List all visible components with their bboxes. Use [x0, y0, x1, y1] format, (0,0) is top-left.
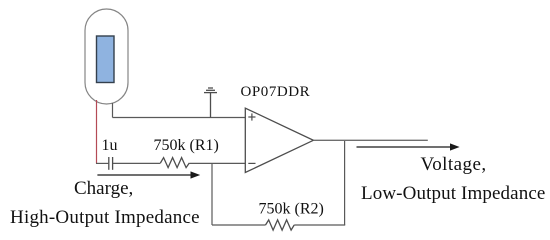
ground stem — [210, 93, 212, 118]
sensor right lead — [112, 103, 114, 118]
charge flow arrow — [97, 171, 200, 178]
op-amp U1 — [245, 108, 313, 172]
wire red lead to capacitor — [96, 162, 108, 164]
piezo sensor body — [85, 9, 128, 104]
red lead wire — [96, 100, 98, 163]
svg-text:750k (R1): 750k (R1) — [154, 137, 219, 154]
capacitor C1 — [109, 157, 113, 170]
feedback vertical left — [211, 163, 213, 225]
svg-text:1u: 1u — [102, 137, 118, 154]
sensor element (blue) — [97, 36, 115, 83]
resistor R1 — [160, 158, 189, 168]
op-amp + pin sign — [248, 113, 255, 120]
svg-text:High-Output Impedance: High-Output Impedance — [10, 207, 200, 228]
voltage flow arrow — [357, 143, 460, 150]
svg-text:Voltage,: Voltage, — [421, 154, 487, 175]
output wire — [313, 139, 427, 141]
op-amp - pin sign — [248, 162, 255, 164]
svg-text:750k (R2): 750k (R2) — [259, 201, 324, 218]
wire R1 to - input — [189, 162, 245, 164]
feedback bottom wire right — [294, 224, 345, 226]
svg-text:Charge,: Charge, — [74, 178, 133, 199]
svg-text:OP07DDR: OP07DDR — [241, 84, 311, 100]
svg-text:Low-Output Impedance: Low-Output Impedance — [361, 183, 545, 204]
wire capacitor to R1 — [113, 162, 160, 164]
ground symbol — [204, 88, 217, 93]
feedback bottom wire left — [212, 224, 266, 226]
wire to + input — [113, 117, 246, 119]
feedback vertical right — [344, 140, 346, 225]
resistor R2 — [266, 220, 295, 230]
